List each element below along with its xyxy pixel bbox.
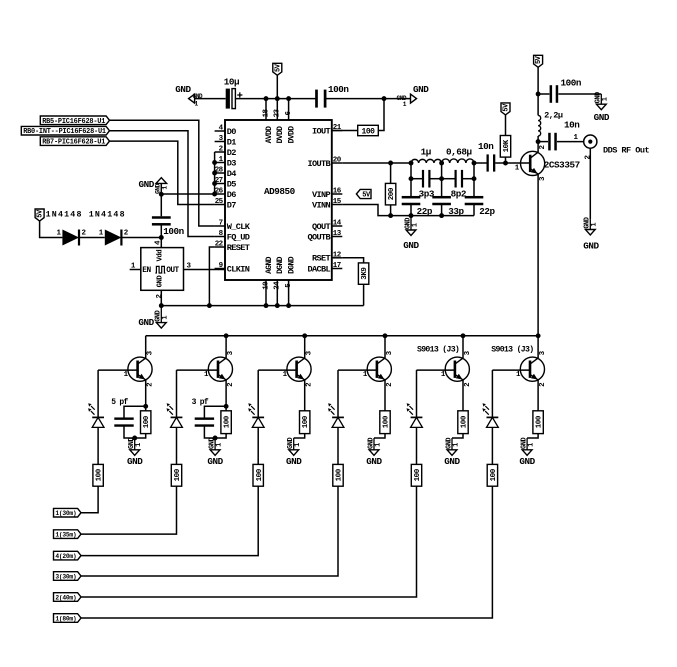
svg-text:IOUT: IOUT xyxy=(312,126,330,136)
resistor 100 at IOUT xyxy=(358,125,379,135)
ground GND below Q6 xyxy=(526,438,528,450)
junction dot rail AGND xyxy=(264,303,269,308)
resistor 100 column 1 xyxy=(93,464,103,486)
wire VINN to filter ground rail xyxy=(342,205,474,216)
svg-text:D2: D2 xyxy=(227,148,236,158)
svg-text:15: 15 xyxy=(333,198,342,206)
svg-text:100: 100 xyxy=(224,415,232,428)
pin 15 VINN xyxy=(332,204,343,206)
wire emitter Q5 xyxy=(462,380,464,411)
wire column 2 to band flag xyxy=(81,486,177,534)
svg-text:GND: GND xyxy=(207,456,223,467)
resistor 100 emitter Q2 xyxy=(225,406,227,411)
svg-text:10n: 10n xyxy=(478,141,494,152)
inductor 1µ xyxy=(411,159,442,163)
junction dot D6 xyxy=(212,192,217,197)
svg-text:GND: GND xyxy=(138,317,154,328)
capacitor 10n series xyxy=(487,154,489,171)
junction dot rail Q3 xyxy=(302,333,307,338)
junction dot rail Q2 xyxy=(224,333,229,338)
svg-text:100: 100 xyxy=(302,415,310,428)
svg-text:1: 1 xyxy=(452,443,460,447)
svg-text:W_CLK: W_CLK xyxy=(227,222,251,232)
junction dot series row B xyxy=(439,176,444,181)
svg-text:GND: GND xyxy=(444,456,460,467)
wire DVDD stub 6 xyxy=(288,99,290,120)
transistor Q6 S9013 xyxy=(520,357,544,381)
svg-text:1: 1 xyxy=(411,223,419,227)
svg-text:GND: GND xyxy=(157,275,165,288)
junction dot node C xyxy=(472,161,477,166)
svg-text:1(30m): 1(30m) xyxy=(55,510,76,517)
junction dot D4 xyxy=(212,171,217,176)
svg-text:100: 100 xyxy=(96,468,104,481)
svg-text:1: 1 xyxy=(294,443,302,447)
pin 3 D1 xyxy=(215,141,225,143)
resistor 3K9 at RSET xyxy=(342,258,363,263)
pin 22 RESET xyxy=(215,246,225,248)
resistor 100 column 3 xyxy=(253,464,263,486)
LED D8 xyxy=(487,416,499,418)
net flag RB0-INT--PIC16F628-U1 xyxy=(21,126,109,135)
oscillator module body xyxy=(141,248,184,291)
pin 10 AGND xyxy=(265,280,267,306)
wire LED column upper Q3 xyxy=(257,370,259,417)
svg-text:1: 1 xyxy=(374,443,382,447)
svg-text:AGND: AGND xyxy=(265,256,274,274)
junction dot Vdd node xyxy=(159,235,164,240)
wire D2-D6 tie bracket xyxy=(214,152,216,194)
wire 2.2µ to 5V node xyxy=(537,94,539,115)
capacitor 5 pf Q1 xyxy=(124,406,146,417)
wire collector Q2 xyxy=(225,336,227,358)
svg-text:14: 14 xyxy=(333,220,342,228)
LED D7 xyxy=(411,416,423,418)
svg-text:RB0-INT--PIC16F628-U1: RB0-INT--PIC16F628-U1 xyxy=(23,128,106,136)
net flag 1(30m) xyxy=(54,508,82,517)
svg-text:D0: D0 xyxy=(227,127,236,137)
diode D2 1N4148 xyxy=(105,230,122,246)
ground GND right of 100n xyxy=(600,94,602,104)
svg-text:DACBL: DACBL xyxy=(308,264,331,274)
wire LED column upper Q5 xyxy=(416,370,418,417)
svg-text:10: 10 xyxy=(262,281,270,290)
junction dot emitter Q2 xyxy=(224,404,229,409)
svg-text:FQ_UD: FQ_UD xyxy=(227,232,250,242)
wire column 6 to band flag xyxy=(81,486,492,618)
wire emitter Q4 xyxy=(384,380,386,411)
junction dot AVDD xyxy=(264,96,269,101)
resistor 100 column 2 xyxy=(171,464,181,486)
wire 10n to base xyxy=(495,162,530,164)
svg-text:22: 22 xyxy=(215,241,224,249)
svg-text:CLKIN: CLKIN xyxy=(227,264,250,274)
wire collector Q4 xyxy=(384,336,386,358)
inductor 2.2µ xyxy=(537,136,539,142)
svg-text:1: 1 xyxy=(602,97,610,101)
wire node A drop xyxy=(410,163,412,196)
wire base Q6 xyxy=(492,369,530,371)
junction dot D5 xyxy=(212,181,217,186)
wire top supply rail xyxy=(195,98,226,100)
wire 5V to diode D1 xyxy=(40,221,63,238)
svg-text:AD9850: AD9850 xyxy=(264,186,296,197)
resistor 100 emitter Q1 xyxy=(145,406,147,411)
svg-text:100: 100 xyxy=(143,415,151,428)
pin 12 RSET xyxy=(332,257,343,259)
wire 3K9 to rail xyxy=(363,284,365,305)
svg-text:1N4148: 1N4148 xyxy=(46,210,83,219)
ground GND below Q2 xyxy=(214,438,216,450)
ground GND below filter xyxy=(410,216,412,230)
resistor 100 column 6 xyxy=(487,464,497,486)
svg-text:100n: 100n xyxy=(561,78,582,89)
svg-text:DGND: DGND xyxy=(276,256,285,274)
capacitor 8p2 xyxy=(442,178,456,180)
svg-text:RESET: RESET xyxy=(227,243,250,253)
wire base Q3 xyxy=(258,369,296,371)
svg-text:5V: 5V xyxy=(535,55,543,64)
svg-text:D3: D3 xyxy=(227,158,236,168)
pin 4 D0 xyxy=(215,130,225,132)
junction dot rail osc xyxy=(159,303,164,308)
junction dot rail Q4 xyxy=(383,333,388,338)
resistor 100 emitter Q5 xyxy=(458,411,468,434)
wire LED column upper Q4 xyxy=(337,370,339,417)
wire LED to resistor column 6 xyxy=(491,427,493,464)
svg-text:GND: GND xyxy=(193,93,203,100)
svg-text:10n: 10n xyxy=(564,120,580,131)
svg-text:D4: D4 xyxy=(227,169,236,179)
svg-text:13: 13 xyxy=(333,230,342,238)
svg-text:20: 20 xyxy=(333,157,342,165)
svg-text:21: 21 xyxy=(333,124,342,132)
svg-text:GND: GND xyxy=(286,456,302,467)
svg-text:DVDD: DVDD xyxy=(276,126,285,144)
svg-text:4(20m): 4(20m) xyxy=(55,553,76,560)
supply 5V flag top xyxy=(273,63,282,75)
wire D2 to Vdd node xyxy=(121,237,161,239)
junction dot IOUT riser xyxy=(382,96,387,101)
wire emitter Q3 xyxy=(304,380,306,411)
net flag 4(20m) xyxy=(54,551,82,560)
pin 17 DACBL xyxy=(332,268,343,270)
wire GND to D6 row xyxy=(161,183,214,194)
svg-text:GND: GND xyxy=(403,240,419,251)
inductor 0.68µ xyxy=(442,159,474,163)
svg-text:3(30m): 3(30m) xyxy=(55,574,76,581)
junction dot emitter Q1 xyxy=(143,404,148,409)
svg-text:22p: 22p xyxy=(479,206,495,217)
svg-text:RB7-PIC16F628-U1: RB7-PIC16F628-U1 xyxy=(42,139,105,147)
svg-text:GND: GND xyxy=(583,241,599,252)
wire column 5 to band flag xyxy=(81,486,417,597)
svg-text:1: 1 xyxy=(527,443,535,447)
svg-text:GND: GND xyxy=(519,456,535,467)
svg-text:100: 100 xyxy=(256,468,264,481)
svg-text:16: 16 xyxy=(333,188,342,196)
svg-text:AVDD: AVDD xyxy=(265,126,274,144)
wire column 4 to band flag xyxy=(81,486,338,576)
wire base Q1 xyxy=(98,369,138,371)
svg-text:D1: D1 xyxy=(227,137,236,147)
svg-text:D5: D5 xyxy=(227,179,236,189)
svg-text:DVDD: DVDD xyxy=(288,126,297,144)
svg-text:D6: D6 xyxy=(227,190,236,200)
svg-text:18: 18 xyxy=(262,109,270,118)
svg-text:GND: GND xyxy=(139,179,155,190)
supply 5V flag above 10K xyxy=(501,103,510,115)
pin 3 OUT wire to CLKIN xyxy=(184,269,226,271)
wire IOUT to resistor xyxy=(332,130,358,132)
resistor 100 column 5 xyxy=(411,464,421,486)
svg-text:3K9: 3K9 xyxy=(361,267,369,280)
junction dot 5V node xyxy=(536,92,541,97)
svg-text:1: 1 xyxy=(591,223,599,227)
svg-text:GND: GND xyxy=(366,456,382,467)
svg-text:1(80m): 1(80m) xyxy=(55,616,76,623)
supply 5V flag at VINP xyxy=(356,189,371,198)
transistor Q1 S9013 xyxy=(128,357,152,381)
svg-text:GND: GND xyxy=(413,84,429,95)
pin 28 D4 xyxy=(215,172,225,174)
LED D6 xyxy=(332,416,344,418)
svg-text:D7: D7 xyxy=(227,200,236,210)
svg-text:DGND: DGND xyxy=(288,256,297,274)
connector J1 DDS RF Out xyxy=(584,135,597,148)
svg-text:23: 23 xyxy=(274,109,282,118)
svg-text:3 pf: 3 pf xyxy=(192,398,209,407)
capacitor 100n top xyxy=(315,90,318,108)
svg-text:S9013 (J3): S9013 (J3) xyxy=(417,345,459,355)
pin 20 IOUTB xyxy=(332,162,343,164)
resistor 10K base bias xyxy=(505,115,507,136)
clock glyph inside oscillator xyxy=(155,266,165,273)
junction dot GND node Q2 xyxy=(213,436,218,441)
capacitor 10n output xyxy=(538,141,548,143)
svg-text:100: 100 xyxy=(461,415,469,428)
svg-text:GND: GND xyxy=(594,112,610,123)
junction dot GND-D6 xyxy=(159,192,164,197)
transistor Q5 S9013 xyxy=(445,357,469,381)
wire emitter Q1 xyxy=(145,380,147,406)
svg-text:DDS RF Out: DDS RF Out xyxy=(603,145,649,155)
ground GND below Q5 xyxy=(451,438,453,450)
wire base Q4 xyxy=(338,369,377,371)
svg-text:100: 100 xyxy=(490,468,498,481)
ground GND symbol below oscillator xyxy=(160,306,162,323)
junction dot GND node Q1 xyxy=(132,436,137,441)
ground GND supply arrow top-left xyxy=(189,94,195,103)
junction dot filter rail A xyxy=(409,213,414,218)
wire node C drop xyxy=(473,163,475,196)
svg-text:RB5-PIC16F628-U1: RB5-PIC16F628-U1 xyxy=(42,118,105,126)
wire LED to resistor column 5 xyxy=(416,427,418,464)
junction dot DVDD1 xyxy=(275,96,280,101)
svg-text:100n: 100n xyxy=(163,226,184,237)
junction dot DVDD2 xyxy=(286,96,291,101)
wire collector Q6 xyxy=(537,336,539,358)
pin 16 VINP xyxy=(332,193,343,195)
svg-text:100: 100 xyxy=(536,415,544,428)
capacitor 3 pf Q2 xyxy=(204,406,226,417)
svg-text:12: 12 xyxy=(333,251,342,259)
ground GND supply arrow above osc cap xyxy=(156,178,167,184)
junction dot rail RESET xyxy=(207,303,212,308)
pin 4 Vdd oscillator xyxy=(160,238,162,248)
junction dot filter rail 200R xyxy=(388,213,393,218)
wire collector Q3 xyxy=(304,336,306,358)
pin 25 D7 xyxy=(215,204,225,206)
svg-text:5V: 5V xyxy=(274,63,282,72)
transistor Q2 S9013 xyxy=(208,357,232,381)
svg-text:10µ: 10µ xyxy=(224,77,239,88)
wire to 100n cap xyxy=(160,194,162,216)
capacitor 33p xyxy=(432,196,451,199)
wire RB5 to W_CLK xyxy=(110,120,215,226)
net flag 1(35m) xyxy=(54,530,82,539)
ground GND below connector xyxy=(589,219,591,229)
svg-text:0,68µ: 0,68µ xyxy=(446,147,472,158)
svg-text:100: 100 xyxy=(174,468,182,481)
svg-text:1: 1 xyxy=(215,443,223,447)
svg-text:10K: 10K xyxy=(503,139,511,152)
junction dot series row A xyxy=(409,176,414,181)
ground GND below Q3 xyxy=(293,438,295,450)
capacitor 22p second xyxy=(465,196,484,199)
net flag RB5-PIC16F628-U1 xyxy=(40,116,109,125)
wire column 3 to band flag xyxy=(81,486,258,555)
svg-text:100: 100 xyxy=(362,127,376,136)
svg-text:100n: 100n xyxy=(328,84,349,95)
wire RB0 to FQ_UD xyxy=(110,131,215,237)
wire LED column upper Q2 xyxy=(176,370,178,417)
svg-text:100: 100 xyxy=(336,468,344,481)
net flag RB7-PIC16F628-U1 xyxy=(40,137,109,146)
pin 14 QOUT xyxy=(332,225,343,227)
junction dot base node xyxy=(503,161,508,166)
svg-text:1: 1 xyxy=(162,316,170,320)
wire connector pin 2 down xyxy=(589,148,591,219)
svg-text:8p2: 8p2 xyxy=(451,189,467,200)
pin 1 EN stub xyxy=(130,269,141,271)
wire LED column upper Q1 xyxy=(97,370,99,417)
svg-text:QOUTB: QOUTB xyxy=(308,232,331,242)
net flag 2(40m) xyxy=(54,593,82,602)
pin 5 DGND xyxy=(288,280,290,306)
svg-text:100: 100 xyxy=(383,415,391,428)
wire node B drop xyxy=(441,163,443,196)
svg-text:Vdd: Vdd xyxy=(157,250,165,262)
wire LED to resistor column 2 xyxy=(176,427,178,464)
pin 1 D3 xyxy=(215,162,225,164)
resistor 100 emitter Q4 xyxy=(380,411,390,434)
supply 5V flag top right xyxy=(534,55,543,67)
wire collector Q1 xyxy=(145,336,147,358)
pin 7 W_CLK xyxy=(215,225,225,227)
junction dot series row C xyxy=(472,176,477,181)
transistor Q7 2CS3357 xyxy=(521,151,545,175)
svg-text:25: 25 xyxy=(215,198,224,206)
pin 26 D6 xyxy=(215,193,225,195)
wire emitter Q6 xyxy=(537,380,539,411)
wire AVDD stub xyxy=(265,99,267,120)
IC U1 AD9850 body xyxy=(225,120,332,280)
wire LED to resistor column 1 xyxy=(97,427,99,464)
wire IOUT riser xyxy=(378,99,384,131)
svg-text:VINN: VINN xyxy=(312,200,330,210)
svg-text:5V: 5V xyxy=(362,192,371,200)
wire LED to resistor column 3 xyxy=(257,427,259,464)
wire base Q5 xyxy=(417,369,455,371)
svg-text:5 pf: 5 pf xyxy=(111,398,128,407)
svg-text:100: 100 xyxy=(414,468,422,481)
junction dot D3 xyxy=(212,160,217,165)
svg-text:5V: 5V xyxy=(503,103,511,112)
LED D4 xyxy=(171,416,183,418)
svg-text:RSET: RSET xyxy=(312,254,330,264)
capacitor 100n decoupling right xyxy=(538,93,549,95)
junction dot filter rail B xyxy=(439,213,444,218)
svg-text:QOUT: QOUT xyxy=(312,222,330,232)
resistor 100 emitter Q6 xyxy=(533,411,543,434)
svg-text:7: 7 xyxy=(219,220,223,228)
junction dot rail Q5 xyxy=(461,333,466,338)
pin 9 CLKIN xyxy=(215,268,225,270)
net flag 1(80m) xyxy=(54,614,82,623)
junction dot node A xyxy=(409,161,414,166)
svg-text:2(40m): 2(40m) xyxy=(55,595,76,602)
junction dot 200R top xyxy=(388,161,393,166)
wire RESET to ground rail xyxy=(209,247,214,306)
wire RB7 to D7 xyxy=(110,141,215,204)
pin 24 DGND xyxy=(276,280,278,306)
supply 5V flag diodes xyxy=(35,209,44,221)
svg-text:IOUTB: IOUTB xyxy=(308,159,331,169)
svg-text:S9013 (J3): S9013 (J3) xyxy=(491,345,533,355)
pin 27 D5 xyxy=(215,183,225,185)
wire LED to resistor column 4 xyxy=(337,427,339,464)
junction dot collector node xyxy=(536,139,541,144)
junction dot rail DGND24 xyxy=(275,303,280,308)
pin 2 GND oscillator xyxy=(160,290,162,305)
wire node C to 10n xyxy=(474,162,487,164)
svg-text:17: 17 xyxy=(333,262,341,270)
ground GND below Q4 xyxy=(373,438,375,450)
pin 8 FQ_UD xyxy=(215,236,225,238)
resistor 100 column 4 xyxy=(333,464,343,486)
svg-text:EN: EN xyxy=(142,267,151,275)
capacitor 10µ xyxy=(226,89,230,109)
svg-text:5V: 5V xyxy=(37,209,45,218)
svg-text:200: 200 xyxy=(388,187,396,200)
svg-text:2CS3357: 2CS3357 xyxy=(544,159,580,170)
resistor 100 emitter Q3 xyxy=(300,411,310,434)
LED D3 xyxy=(92,416,104,418)
svg-text:24: 24 xyxy=(274,281,282,290)
net flag 3(30m) xyxy=(54,572,82,581)
svg-text:GND: GND xyxy=(175,84,191,95)
wire collector riser xyxy=(537,142,539,153)
wire emitter to bank rail xyxy=(537,174,539,336)
ground GND supply arrow top-right xyxy=(411,94,417,103)
LED D5 xyxy=(252,416,264,418)
diode D1 1N4148 xyxy=(62,230,79,246)
svg-text:1(35m): 1(35m) xyxy=(55,532,76,539)
wire ground rail xyxy=(161,305,363,307)
svg-text:2,2µ: 2,2µ xyxy=(544,110,563,120)
svg-text:GND: GND xyxy=(127,456,143,467)
